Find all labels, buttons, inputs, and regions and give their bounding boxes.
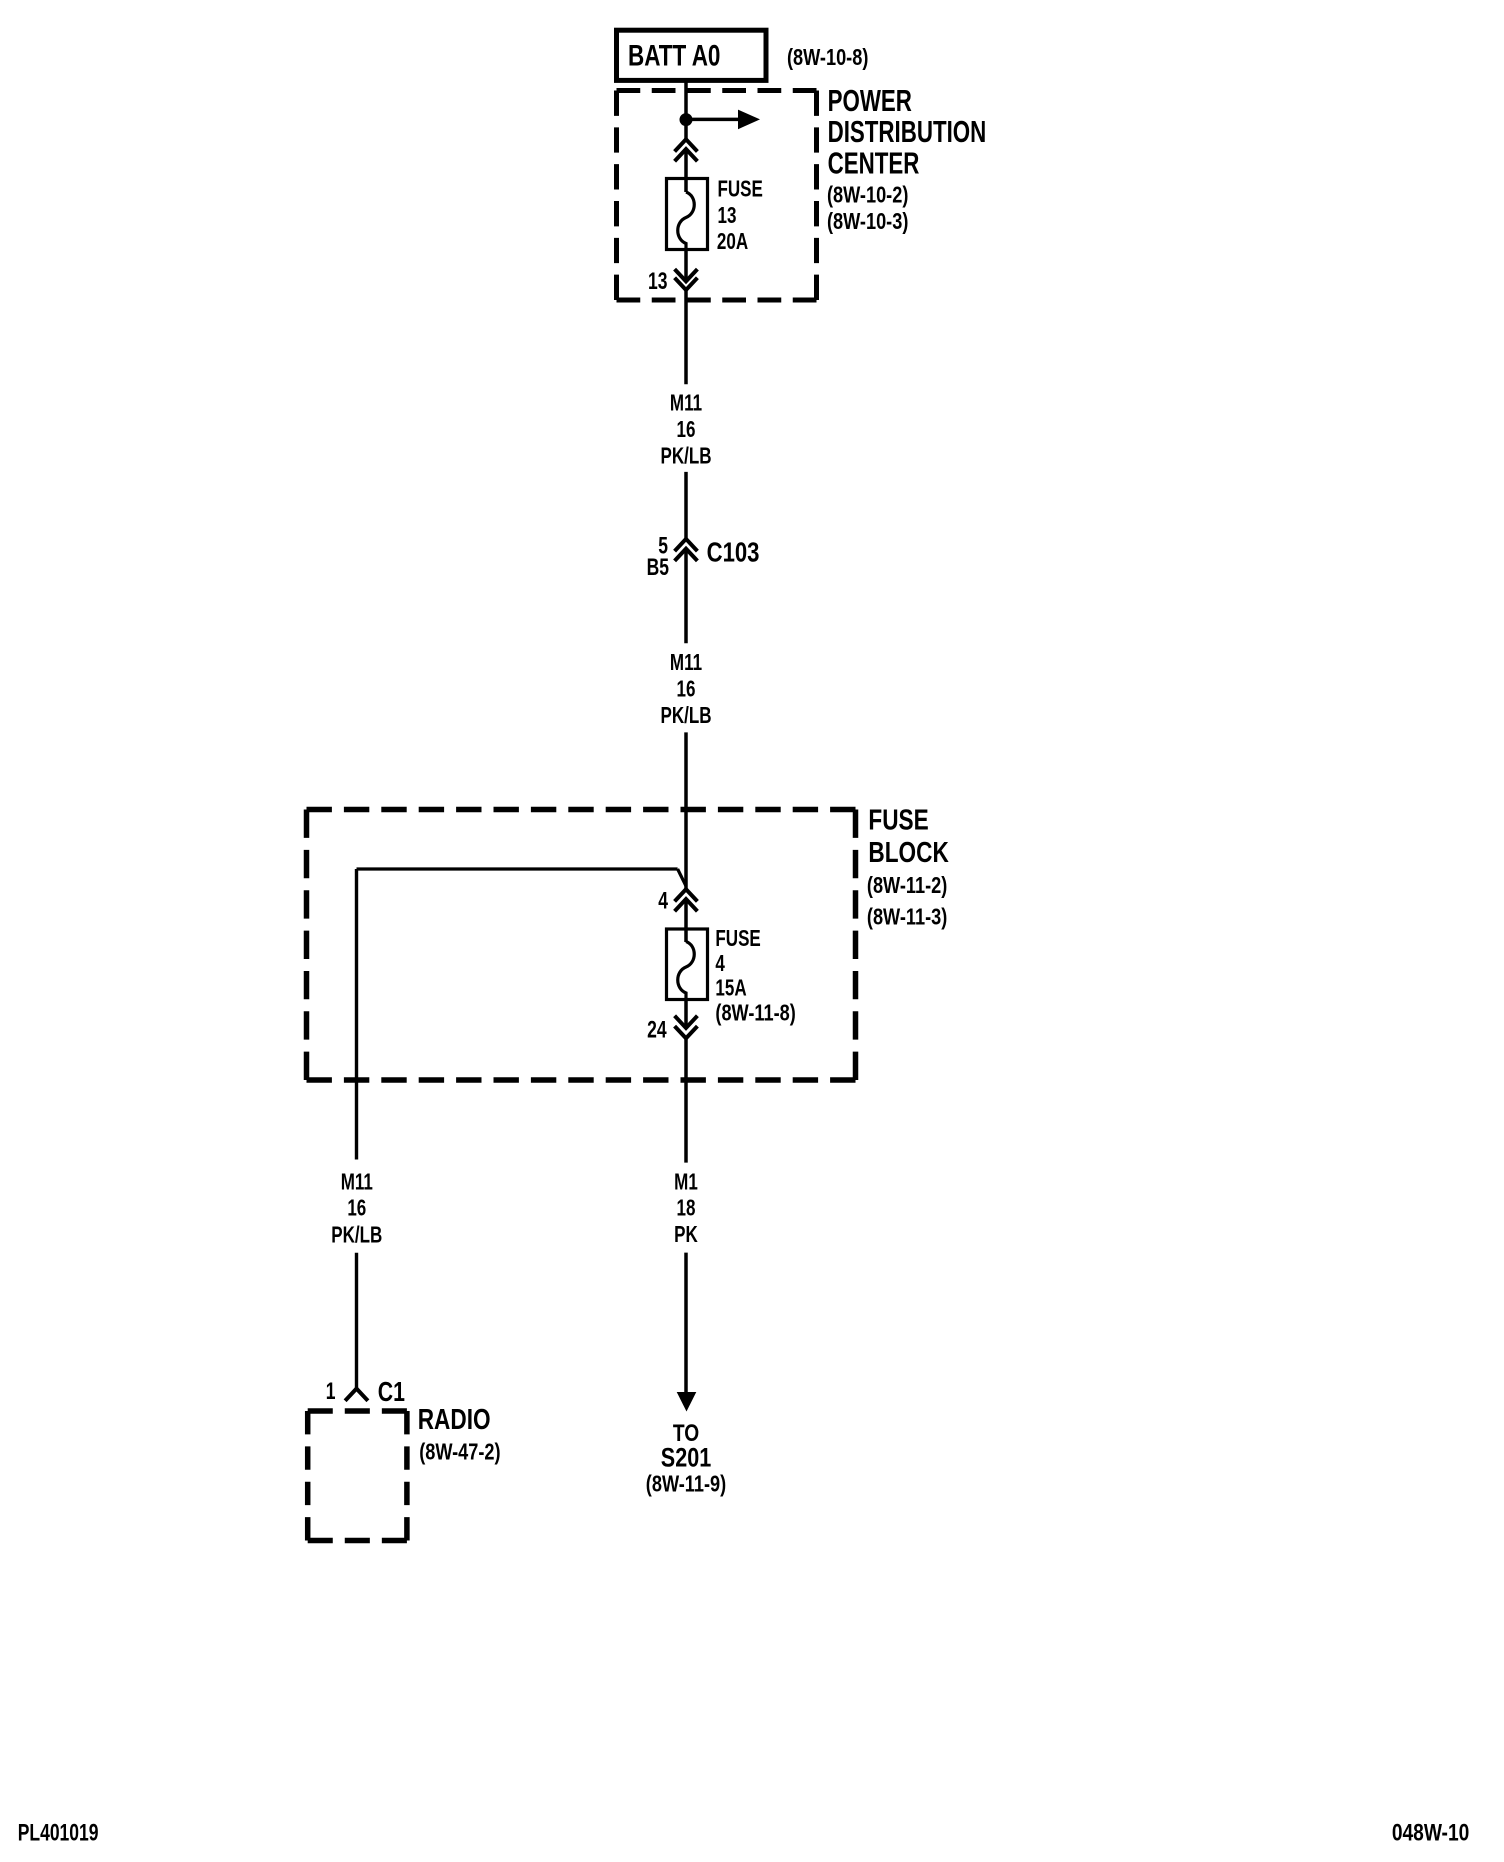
svg-text:M11: M11 <box>670 391 702 416</box>
wire junction down to connector chevron <box>684 120 688 140</box>
svg-text:PK/LB: PK/LB <box>331 1223 382 1248</box>
wire pin 13 down to label M11 <box>684 290 688 384</box>
wire fuse 13 to pin 13 <box>684 250 688 281</box>
svg-text:16: 16 <box>347 1196 366 1221</box>
svg-text:FUSE: FUSE <box>868 803 928 836</box>
svg-text:(8W-11-9): (8W-11-9) <box>646 1472 726 1498</box>
pin 4 connector chevron (double, up) <box>675 889 698 911</box>
svg-text:M11: M11 <box>341 1170 373 1195</box>
svg-text:M11: M11 <box>670 651 702 676</box>
wire C103 down to label <box>684 549 688 644</box>
wire pin 4 to fuse 4 <box>684 899 688 942</box>
fuse F13 body <box>667 179 708 250</box>
fuse F13 element squiggle <box>678 192 695 250</box>
wire label down into fuse block <box>684 732 688 889</box>
svg-text:PK/LB: PK/LB <box>660 704 711 729</box>
svg-text:BLOCK: BLOCK <box>868 835 949 868</box>
wire label down to splice arrow <box>684 1253 688 1393</box>
svg-text:DISTRIBUTION: DISTRIBUTION <box>828 115 987 149</box>
svg-text:16: 16 <box>677 677 696 702</box>
svg-text:(8W-47-2): (8W-47-2) <box>419 1440 500 1466</box>
junction node <box>680 113 693 126</box>
svg-text:RADIO: RADIO <box>418 1402 491 1435</box>
wire chevron to fuse 13 <box>684 149 688 192</box>
arrow to splice S201 <box>677 1392 697 1412</box>
svg-text:BATT A0: BATT A0 <box>628 39 720 73</box>
battery feed box BATT A0 <box>617 30 767 80</box>
pin 24 connector chevron (double, down) <box>675 1016 698 1039</box>
svg-text:PK/LB: PK/LB <box>660 444 711 469</box>
svg-text:(8W-10-8): (8W-10-8) <box>787 45 868 71</box>
svg-text:C103: C103 <box>707 537 760 568</box>
left branch wire down from fuse block <box>355 869 358 1160</box>
connector C103 chevron (double, up) <box>675 539 698 561</box>
internal connector chevron (double, up) <box>675 139 698 161</box>
svg-text:16: 16 <box>677 418 696 443</box>
wire label down to connector C1 <box>355 1253 358 1389</box>
connector C1 chevron (single, up) <box>345 1389 368 1401</box>
svg-text:13: 13 <box>718 204 737 229</box>
svg-text:(8W-11-8): (8W-11-8) <box>715 1001 795 1027</box>
svg-text:(8W-10-3): (8W-10-3) <box>827 209 908 235</box>
radio dashed box <box>308 1411 407 1541</box>
wire pin 24 down to label M1 <box>684 1038 688 1162</box>
svg-text:13: 13 <box>648 269 667 295</box>
branch wire diagonal jog to main wire <box>678 869 686 886</box>
svg-text:18: 18 <box>677 1196 696 1221</box>
svg-text:PK: PK <box>674 1223 698 1248</box>
wire arrow to other feeds <box>686 118 740 122</box>
svg-text:4: 4 <box>658 888 668 914</box>
wire label to connector C103 <box>684 472 688 539</box>
svg-text:POWER: POWER <box>828 83 912 117</box>
svg-text:4: 4 <box>715 952 725 977</box>
branch wire horizontal inside fuse block <box>357 867 678 870</box>
svg-text:C1: C1 <box>378 1376 405 1408</box>
wire BATT A0 down to junction <box>684 81 688 120</box>
svg-text:PL401019: PL401019 <box>18 1820 99 1846</box>
fuse F4 body <box>667 929 708 1000</box>
fuse block dashed box <box>307 810 856 1081</box>
svg-text:S201: S201 <box>661 1444 711 1474</box>
svg-text:(8W-11-2): (8W-11-2) <box>867 873 947 899</box>
svg-text:CENTER: CENTER <box>828 146 920 180</box>
svg-text:FUSE: FUSE <box>715 927 760 952</box>
svg-text:TO: TO <box>673 1419 699 1447</box>
svg-text:1: 1 <box>326 1379 336 1405</box>
wire fuse 4 to pin 24 <box>684 1000 688 1029</box>
svg-text:(8W-10-2): (8W-10-2) <box>827 182 908 208</box>
svg-text:20A: 20A <box>717 230 749 255</box>
fuse F4 element squiggle <box>678 942 695 1000</box>
svg-text:048W-10: 048W-10 <box>1392 1819 1469 1847</box>
svg-text:(8W-11-3): (8W-11-3) <box>867 905 947 931</box>
svg-text:24: 24 <box>647 1017 667 1043</box>
pin 13 connector chevron (double, down) <box>675 269 698 290</box>
svg-text:B5: B5 <box>647 554 670 580</box>
svg-text:M1: M1 <box>674 1170 698 1195</box>
svg-text:FUSE: FUSE <box>718 177 763 202</box>
power distribution center dashed box <box>617 91 817 301</box>
svg-text:15A: 15A <box>715 976 747 1001</box>
